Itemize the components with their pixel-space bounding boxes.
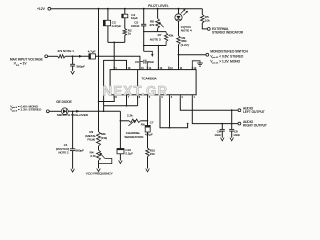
wire C4 top — [124, 9, 126, 15]
junction pin1-vertA — [98, 101, 100, 103]
label C5 value — [131, 21, 140, 28]
wire R4 to ground — [98, 161, 100, 169]
junction rail-LED — [178, 8, 180, 10]
wire C9 ground lead — [231, 131, 233, 138]
svg-text:47k NOTE 1: 47k NOTE 1 — [57, 49, 74, 53]
ground R10 — [146, 169, 150, 172]
label EXTERNAL STEREO INDICATOR — [212, 27, 244, 35]
node audio right terminal — [238, 122, 241, 125]
svg-text:(1%): (1%) — [101, 136, 107, 140]
wire vertical B tail — [103, 106, 105, 112]
wiper arrow R4 — [99, 153, 104, 159]
ground C10 — [119, 160, 123, 163]
ground C8 — [221, 138, 225, 141]
label R7 value — [168, 34, 173, 38]
wire +12V rail — [51, 8, 203, 10]
wire R10 to ground — [147, 157, 149, 169]
wire R8-R7box — [157, 28, 159, 31]
junction B-GE wire — [103, 111, 105, 113]
wire R7box to pin 12 — [157, 46, 159, 70]
resistor R3 — [97, 132, 101, 146]
resistor R9 — [177, 36, 181, 45]
wiper arrow R6 — [128, 120, 135, 126]
node GE diode terminal — [46, 110, 49, 113]
wire GE left — [49, 110, 61, 112]
svg-text:TCA4500A: TCA4500A — [141, 76, 157, 80]
wire C1b ground lead — [72, 151, 74, 169]
wire to pin 1 — [113, 42, 115, 69]
diode D1 GE — [61, 108, 68, 115]
label VCO FREQUENCY — [86, 171, 113, 175]
wire C4-R2 — [124, 18, 126, 29]
wire C5 elbow — [144, 51, 153, 55]
junction GE-vertA — [98, 111, 100, 113]
svg-text:FILM): FILM) — [87, 137, 95, 141]
capacitor C3 — [103, 20, 110, 26]
label C7 — [150, 120, 154, 124]
junction left-out cap C9 — [231, 109, 233, 111]
svg-text:43k: 43k — [168, 34, 173, 38]
potentiometer R4 — [97, 150, 101, 161]
svg-text:47k: 47k — [149, 23, 154, 27]
wire R7 bottom — [144, 45, 166, 47]
svg-text:10k: 10k — [205, 18, 210, 22]
label switch stereo level — [210, 54, 243, 59]
junction rail-R8 — [157, 8, 159, 10]
svg-text:4.7k: 4.7k — [90, 154, 96, 158]
op-amp U1 TCA4500A body — [110, 70, 196, 95]
label R4 — [90, 151, 97, 159]
svg-text:NOTE 3: NOTE 3 — [150, 38, 161, 42]
junction R6 left — [120, 120, 122, 122]
svg-text:10nF: 10nF — [214, 133, 221, 137]
junction rail-C4 — [124, 8, 126, 10]
wire loop horizontal — [104, 105, 138, 107]
wire C8 ground lead — [221, 131, 223, 138]
label MONO/STEREO SWITCH — [210, 49, 248, 53]
junction rail-C5 — [143, 8, 145, 10]
node external indicator terminal — [207, 28, 210, 31]
svg-text:STEREO INDICATOR: STEREO INDICATOR — [212, 31, 244, 35]
svg-text:2.2µF: 2.2µF — [125, 152, 133, 156]
wire C3 top — [107, 9, 109, 21]
wire R6 left — [120, 120, 129, 122]
junction R6-C7 — [147, 120, 149, 122]
capacitor C8 — [220, 129, 225, 131]
svg-text:NOTE 2: NOTE 2 — [58, 151, 69, 155]
label C1b — [56, 143, 69, 154]
capacitor C5 — [141, 24, 146, 26]
LED emission arrows — [181, 9, 188, 15]
capacitor C10 — [117, 149, 124, 154]
wire shunt cap top — [72, 56, 74, 64]
svg-text:2.2k: 2.2k — [127, 113, 133, 117]
wire LED-R9 — [178, 21, 180, 36]
resistor R2 — [123, 29, 127, 36]
ground C1b — [71, 169, 75, 172]
wire C6 left lead — [140, 62, 143, 66]
svg-text:R7: R7 — [158, 33, 162, 37]
svg-text:150: 150 — [150, 152, 155, 156]
label switch mono level — [210, 60, 240, 65]
svg-text:PILOT LEVEL: PILOT LEVEL — [148, 4, 169, 8]
svg-text:4.7µF: 4.7µF — [145, 133, 153, 137]
wire C1 to pin 15 — [95, 56, 139, 69]
svg-text:+12V: +12V — [37, 7, 46, 11]
junction rail-A — [98, 8, 100, 10]
wire C8 lead — [221, 124, 223, 130]
wire C10 ground lead — [119, 154, 121, 161]
wire pin3 riser — [137, 70, 139, 106]
svg-text:100nF: 100nF — [131, 24, 140, 28]
svg-text:VCO FREQUENCY: VCO FREQUENCY — [86, 171, 113, 175]
label R1 value — [57, 49, 74, 53]
wire R7 top — [144, 31, 166, 33]
wire R1 to C1 — [65, 55, 89, 57]
wire input to R1 — [48, 55, 58, 57]
svg-text:10nF: 10nF — [233, 133, 240, 137]
junction R7 top-left — [143, 31, 144, 32]
ground input shunt — [71, 71, 75, 74]
wire R3-R4 — [98, 146, 100, 150]
wire pin2 stub down — [126, 95, 128, 106]
wire pin9 ground bracket — [192, 61, 200, 70]
LED CQY24 — [175, 14, 182, 21]
label C10 value — [125, 148, 133, 156]
resistor R5 — [201, 15, 205, 24]
capacitor C1b — [70, 149, 75, 151]
ground C9 — [230, 138, 234, 141]
label C9 value — [233, 129, 240, 137]
label PILOT LEVEL — [148, 4, 169, 8]
junction switch tap — [178, 54, 180, 56]
wire R4 wiper loop — [99, 158, 112, 163]
resistor R10 — [146, 148, 150, 157]
svg-text:LEFT OUTPUT: LEFT OUTPUT — [243, 110, 265, 114]
resistor R7 43k — [164, 32, 167, 46]
label R3 value — [101, 132, 107, 140]
wire pin4 U-loop — [160, 98, 188, 128]
capacitor C1 input — [89, 54, 96, 59]
wire C5 top — [143, 9, 145, 25]
label C4 value — [131, 13, 138, 20]
label C6 — [135, 60, 139, 64]
ground R4 — [97, 168, 101, 171]
junction pin2-loop — [126, 105, 128, 107]
svg-text:RIGHT OUTPUT: RIGHT OUTPUT — [243, 124, 267, 128]
wire pin1 elbow to vertical A — [99, 95, 115, 102]
label C3 value — [112, 20, 122, 28]
label SMOOTH TAKE-OVER — [57, 113, 89, 117]
capacitor C4 — [122, 14, 128, 18]
wire switch tap — [179, 54, 206, 56]
svg-text:R6: R6 — [141, 123, 145, 127]
label R5 value — [205, 15, 210, 23]
potentiometer R6 — [129, 119, 141, 122]
svg-text:NEXT.GR: NEXT.GR — [103, 83, 169, 98]
capacitor 560pF input — [70, 64, 75, 66]
wiper arrow R8 — [158, 22, 163, 27]
label R6 value — [127, 113, 133, 117]
label CHANNEL SEPARATION — [124, 131, 143, 139]
svg-text:C6: C6 — [135, 60, 139, 64]
svg-text:4.7µF: 4.7µF — [88, 49, 96, 53]
wire R9 to pin 10 — [178, 45, 180, 70]
junction GE-C1cap — [72, 111, 74, 113]
label AUDIO LEFT OUTPUT — [243, 106, 265, 114]
node switch terminal — [206, 53, 209, 56]
label mono level left — [10, 104, 39, 109]
junction U-loop right out — [187, 123, 189, 125]
svg-text:SEPARATION: SEPARATION — [124, 135, 143, 139]
label 560pF input — [76, 64, 85, 68]
wire R2 bottom — [124, 36, 126, 43]
svg-text:15nF: 15nF — [148, 60, 155, 64]
wire C7 to R10 — [147, 132, 149, 148]
svg-text:560pF: 560pF — [75, 149, 84, 153]
label R9 value — [181, 36, 189, 47]
svg-text:560pF: 560pF — [76, 64, 85, 68]
wire GE corner down — [119, 111, 121, 148]
junction rail-C3 — [107, 8, 109, 10]
svg-text:1k: 1k — [128, 32, 132, 36]
junction input shunt — [72, 55, 74, 57]
wire R6 right to C7 — [141, 120, 148, 122]
label C6 value — [148, 60, 155, 64]
wire C9 lead — [231, 110, 233, 129]
label R7 — [150, 33, 162, 42]
svg-text:C7: C7 — [150, 120, 154, 124]
wire LED top — [178, 9, 180, 14]
label CQY24 — [181, 25, 192, 33]
svg-text:NOTE 4: NOTE 4 — [181, 29, 192, 33]
label U1 TCA4500A — [141, 76, 157, 80]
pin numbers bottom row — [114, 95, 195, 99]
wire pin5 down — [147, 98, 149, 126]
wire pin3 short — [169, 98, 171, 128]
wire pin16 loop — [104, 60, 127, 105]
arrowhead C5 to pin 13 — [151, 54, 153, 57]
svg-text:(1.2V): (1.2V) — [181, 43, 189, 47]
label R2 value — [128, 28, 132, 35]
svg-text:0.47µF: 0.47µF — [112, 24, 122, 28]
wire GE right — [68, 110, 120, 112]
watermark NEXT.GR — [103, 83, 169, 98]
node MPX input terminal — [45, 55, 48, 58]
wire C3 bottom — [107, 26, 109, 43]
svg-text:MONO/STEREO SWITCH: MONO/STEREO SWITCH — [210, 49, 248, 53]
wire vertical A — [98, 9, 100, 132]
capacitor C6 — [144, 60, 146, 64]
svg-text:GE DIODE: GE DIODE — [56, 100, 72, 104]
label C7 value — [145, 133, 153, 137]
wire shunt cap bottom — [72, 66, 74, 71]
wire R8 top — [157, 9, 159, 19]
wire pin1 audio right — [192, 98, 238, 124]
wire C1b lead — [72, 111, 74, 149]
wire pin2 audio left — [180, 98, 238, 110]
label R8 value — [149, 19, 154, 27]
label C1b value — [75, 149, 84, 153]
capacitor C9 — [229, 129, 234, 131]
label AUDIO RIGHT OUTPUT — [243, 120, 267, 128]
wire C3-C4 join — [108, 41, 125, 43]
junction join-pin1 — [113, 42, 115, 44]
node +12V supply terminal — [37, 7, 51, 11]
label R6 — [141, 123, 145, 127]
label C8 value — [214, 129, 221, 137]
label R3 — [85, 130, 96, 141]
label MAX INPUT VOLTAGE — [10, 58, 43, 67]
junction C1-wire crossing — [98, 56, 99, 57]
wire R5 top — [201, 9, 203, 15]
label R10 value — [150, 148, 156, 156]
ground pin9 — [197, 63, 203, 66]
label GE DIODE — [56, 100, 72, 104]
resistor R1 — [58, 55, 66, 58]
wire C6 right lead — [146, 62, 149, 70]
junction R7 bottom-left — [143, 45, 144, 46]
label C1 4.7uF — [88, 49, 96, 53]
signal arrowhead smooth takeover — [76, 110, 79, 113]
junction pin3 U-loop — [169, 127, 171, 129]
wire R5 to terminal — [202, 23, 207, 29]
node audio left terminal — [238, 109, 241, 112]
junction right-out cap C8 — [221, 123, 223, 125]
pin numbers top row — [114, 67, 197, 70]
label stereo level left — [10, 108, 42, 113]
wire C5 bottom — [143, 26, 145, 51]
signal arrowhead — [79, 55, 82, 58]
junction R7 bottom-mid — [158, 45, 159, 46]
svg-text:10µF: 10µF — [131, 16, 138, 20]
potentiometer R8 — [156, 19, 160, 29]
capacitor C7 — [145, 126, 150, 133]
